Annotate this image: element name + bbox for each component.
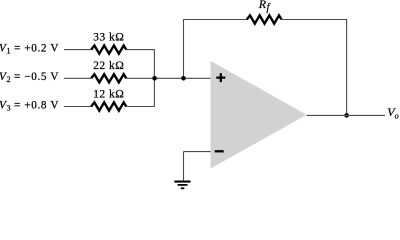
wire output from apex (307, 114, 385, 116)
ground symbol (174, 181, 190, 190)
wire V1 lead left (64, 49, 91, 51)
wire minus input vertical down to ground (183, 152, 185, 181)
wire top right segment from Rf (282, 19, 348, 21)
wire V3 lead left (64, 106, 91, 108)
node junction dot bus/row2 (152, 76, 157, 81)
svg-text:V2 = −0.5 V: V2 = −0.5 V (0, 71, 59, 84)
wire R3 to bus (126, 106, 154, 108)
svg-text:33 kΩ: 33 kΩ (93, 30, 124, 43)
wire V2 lead left (64, 77, 91, 79)
wire top left segment to Rf (183, 19, 247, 21)
wire right vertical down to output (346, 20, 348, 116)
wire vertical bus joining three inputs (153, 49, 155, 107)
node junction dot output (344, 113, 349, 118)
resistor R3 12 kOhm (91, 102, 126, 110)
op-amp minus input symbol (215, 150, 224, 152)
op-amp plus input symbol (216, 73, 225, 82)
node junction dot feedback/plus-input (181, 76, 186, 81)
svg-text:22 kΩ: 22 kΩ (93, 59, 124, 72)
resistor Rf feedback (247, 15, 282, 23)
wire feedback vertical from plus node to top (183, 20, 185, 79)
svg-text:12 kΩ: 12 kΩ (93, 87, 124, 100)
wire minus input horizontal (184, 151, 211, 153)
svg-text:V1 = +0.2 V: V1 = +0.2 V (0, 43, 59, 56)
svg-text:Rf: Rf (258, 0, 272, 13)
resistor R1 33 kOhm (91, 46, 126, 54)
wire R1 to bus (126, 49, 154, 51)
resistor R2 22 kOhm (91, 74, 126, 82)
op-amp U1 triangle (211, 61, 307, 169)
wire R2 to op-amp plus input (126, 77, 210, 79)
svg-text:Vo: Vo (387, 105, 398, 120)
svg-text:V3 = +0.8 V: V3 = +0.8 V (0, 100, 59, 113)
